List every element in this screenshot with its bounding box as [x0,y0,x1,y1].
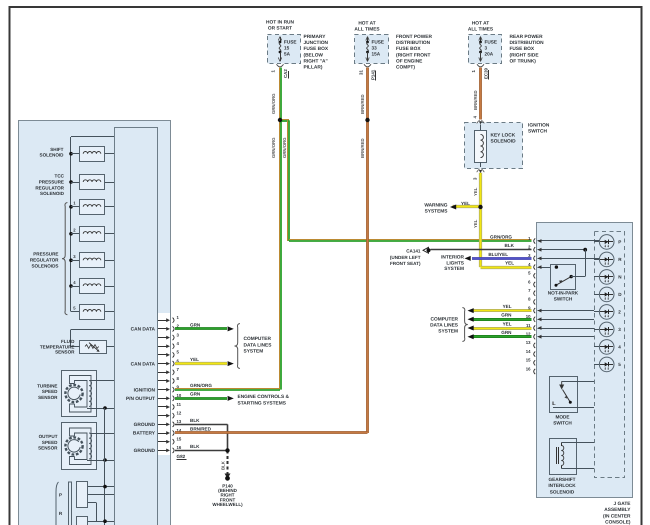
transmission connector pins 1-16 [158,315,182,453]
svg-text:GROUND: GROUND [134,448,156,454]
svg-text:SOLENOID: SOLENOID [550,490,575,495]
svg-text:OF ENGINE: OF ENGINE [396,58,423,64]
svg-text:LIGHTS: LIGHTS [446,260,464,266]
J-gate internal line pin 9 [538,310,595,312]
wire YEL J-gate pin 11 computer data line [472,327,532,330]
fluid temperature sensor [71,329,115,353]
wire BLK vertical pin13 to pin16 [227,424,229,450]
warning systems tap wire YEL [453,205,481,208]
svg-text:YEL: YEL [503,321,512,326]
svg-text:BRN/RED: BRN/RED [360,138,365,158]
J-gate internal line pin 10 [538,319,595,321]
wire BLK trans pin 16 GROUND [175,450,228,452]
svg-text:FRONT POWER: FRONT POWER [396,34,433,40]
svg-text:HOT AT: HOT AT [472,21,489,27]
svg-text:SYSTEMS: SYSTEMS [425,208,449,214]
svg-text:SPEED: SPEED [42,440,58,445]
not-in-park switch [551,250,586,290]
svg-text:BRN/RED: BRN/RED [360,94,365,114]
svg-text:NOT-IN-PARK: NOT-IN-PARK [548,291,579,296]
svg-text:FUSE: FUSE [372,40,385,45]
svg-text:CONSOLE): CONSOLE) [605,519,631,525]
svg-text:EC39: EC39 [484,67,489,79]
svg-text:COMPT): COMPT) [396,65,415,71]
wire GRN trans pin 10 P/N OUTPUT [175,397,227,400]
svg-text:SENSOR: SENSOR [38,446,58,451]
pressure regulator solenoid 3 [69,253,114,268]
svg-text:PRESSURE: PRESSURE [33,252,58,257]
svg-text:SYSTEM: SYSTEM [444,266,464,272]
svg-text:BLK: BLK [190,444,200,449]
svg-text:GRN: GRN [190,392,201,397]
svg-text:SOLENOID: SOLENOID [40,191,65,196]
wire GRN trans pin 2 CAN DATA [175,327,227,330]
svg-text:IGNITION: IGNITION [528,123,550,129]
svg-text:GRN/ORG: GRN/ORG [282,137,287,158]
gear indicator light 4 [594,340,621,355]
svg-text:FUSE: FUSE [485,40,498,45]
svg-text:33: 33 [372,46,378,51]
svg-text:(RIGHT SIDE: (RIGHT SIDE [510,52,540,58]
gear indicator light N [594,270,622,285]
crossing mark at ignition box bottom [477,169,480,172]
svg-text:FUSE BOX: FUSE BOX [304,46,329,52]
svg-text:P: P [618,240,621,245]
connector CA141 symbol [423,247,429,253]
wire YEL J-gate pin 9 computer data line [472,309,532,312]
svg-text:BATTERY: BATTERY [133,431,156,437]
svg-text:OUTPUT: OUTPUT [39,434,58,439]
svg-text:FRONT SEAT): FRONT SEAT) [390,261,421,266]
svg-text:P/N OUTPUT: P/N OUTPUT [126,396,155,402]
svg-text:(BELOW: (BELOW [304,52,324,58]
svg-text:4: 4 [618,345,621,350]
svg-text:REAR POWER: REAR POWER [510,34,544,40]
svg-text:ASSEMBLY: ASSEMBLY [604,507,631,513]
svg-text:DISTRIBUTION: DISTRIBUTION [510,40,545,46]
output speed sensor [62,423,115,470]
svg-text:CAN DATA: CAN DATA [131,361,156,367]
svg-text:SENSOR: SENSOR [55,350,75,355]
gear position switch bracket [56,482,59,525]
mode switch [550,377,595,413]
svg-text:20A: 20A [485,52,494,57]
svg-text:13: 13 [177,419,182,424]
svg-text:DATA LINES: DATA LINES [244,342,273,348]
svg-text:16: 16 [177,445,182,450]
svg-text:FUSE BOX: FUSE BOX [396,46,421,52]
svg-text:15A: 15A [372,52,381,57]
turbine speed sensor [62,371,115,417]
svg-text:P: P [59,493,62,498]
svg-text:13: 13 [526,340,531,345]
gear position switch contact P [77,482,115,522]
J-gate assembly box [537,223,633,498]
pressure regulator solenoid 4 [69,279,114,294]
svg-text:BLK: BLK [505,243,515,248]
svg-text:GRN/ORG: GRN/ORG [490,234,512,239]
brace: computer data lines (left) [235,324,240,369]
svg-text:SENSOR: SENSOR [38,395,58,400]
svg-text:SWITCH: SWITCH [554,296,573,301]
svg-text:REGULATOR: REGULATOR [30,257,59,262]
svg-text:SOLENOIDS: SOLENOIDS [31,263,58,268]
svg-text:COMPUTER: COMPUTER [244,336,272,342]
svg-text:11: 11 [177,402,182,407]
gear indicator light 2 [594,305,621,320]
J-gate internal line pin 3 to R light [538,258,600,260]
arrow to interior lights system [465,256,471,261]
svg-text:BLK: BLK [221,460,226,470]
svg-text:SWITCH: SWITCH [553,420,572,425]
svg-text:15: 15 [526,358,531,363]
gear indicator light P [594,235,621,250]
gear indicator light D [594,287,622,302]
svg-text:DISTRIBUTION: DISTRIBUTION [396,40,431,46]
svg-text:CA2: CA2 [283,69,288,78]
svg-text:INTERIOR: INTERIOR [441,255,464,261]
svg-text:GEARSHIFT: GEARSHIFT [548,477,575,482]
svg-text:WHEELWELL): WHEELWELL) [212,502,243,507]
wire YEL down to J-gate pin 4 [479,207,482,267]
J-gate internal line pin 2 ground [538,249,586,251]
svg-text:SYSTEM: SYSTEM [244,349,264,355]
wire GRN/ORG vertical x289 down to J-gate pin1 row [287,120,289,241]
wire GRN/ORG horizontal into trans pin 9 [175,388,280,390]
dashed BLK wire to ground P140 [227,450,229,474]
svg-text:J GATE: J GATE [614,501,632,507]
gear indicator light 5 [594,357,621,372]
svg-text:12: 12 [177,410,182,415]
gear position switch common bar [68,482,71,525]
svg-text:GRN: GRN [501,330,512,335]
svg-text:31: 31 [359,70,364,75]
svg-text:CAN DATA: CAN DATA [131,327,156,333]
wire BRN/RED from fuse 3 down to ignition switch [479,68,482,120]
arrow to warning systems [450,205,456,210]
svg-text:5: 5 [618,362,621,367]
key lock solenoid [475,125,487,168]
svg-text:BRN/RED: BRN/RED [473,90,478,110]
brace: pressure regulator solenoids group [62,203,67,315]
svg-text:IGNITION: IGNITION [134,387,156,393]
svg-text:RIGHT "A": RIGHT "A" [304,58,328,64]
svg-text:3: 3 [485,46,488,51]
ground splice junction [225,448,229,452]
svg-text:ALL TIMES: ALL TIMES [354,26,380,32]
fuse F33 front power distribution fuse box [355,35,389,64]
wire BLK trans pin 13 GROUND [175,424,228,426]
svg-text:10: 10 [526,314,531,319]
wire YEL trans pin 6 CAN DATA [175,362,227,365]
svg-text:12: 12 [526,332,531,337]
transmission inner connector rectangle [115,128,158,525]
J-gate internal line pin 1 to P light [538,240,600,242]
svg-text:WARNING: WARNING [424,202,447,208]
gear indicator light 3 [594,322,621,337]
J-gate connector pins 1-16 [526,236,535,374]
pressure regulator solenoid 1 [69,200,114,215]
svg-text:PRIMARY: PRIMARY [304,34,327,40]
svg-text:KEY LOCK: KEY LOCK [491,133,516,139]
svg-text:TCC: TCC [55,174,65,179]
J-gate internal line pin 4 to not-in-park switch [538,267,557,269]
svg-text:ALL TIMES: ALL TIMES [468,26,494,32]
svg-text:INTERLOCK: INTERLOCK [548,483,576,488]
gear indicator light R [594,252,622,267]
svg-text:14: 14 [526,349,531,354]
wire BRN/RED horizontal into trans pin 14 BATTERY [175,431,368,434]
wire GRN/ORG horizontal to J-gate pin 1 [289,239,532,241]
svg-text:SWITCH: SWITCH [528,129,547,135]
svg-text:SYSTEM: SYSTEM [438,328,458,334]
svg-text:HOT AT: HOT AT [358,21,375,27]
svg-text:FUSE: FUSE [284,40,297,45]
svg-text:JUNCTION: JUNCTION [304,40,329,46]
svg-text:GRN: GRN [190,322,201,327]
svg-text:REGULATOR: REGULATOR [35,185,64,190]
svg-text:YEL: YEL [190,357,199,362]
svg-text:11: 11 [526,323,531,328]
svg-text:DATA LINES: DATA LINES [430,322,459,328]
svg-text:(IN CENTER: (IN CENTER [603,513,631,519]
svg-text:CA141: CA141 [406,248,421,253]
J-gate internal line pin 12 [538,336,595,338]
wire BLU/YEL to J-gate pin 3 [472,257,532,260]
brace: computer data lines (right) [462,308,467,342]
crossing mark at ignition box top [477,120,480,123]
fuse 15 output connector cup [277,64,284,67]
svg-text:HOT IN RUN: HOT IN RUN [266,20,295,26]
pressure regulator solenoid 5 [71,305,114,320]
wire GRN J-gate pin 10 computer data line [472,318,532,321]
svg-text:GRN: GRN [501,313,512,318]
wire GRN/ORG vertical to pin9 row [279,120,281,389]
svg-text:YEL: YEL [461,201,470,206]
svg-text:BRN/RED: BRN/RED [190,426,212,431]
svg-text:FUSE BOX: FUSE BOX [510,46,535,52]
gear indicator lights dashed box [595,232,625,478]
fuse F3 rear power distribution fuse box [469,35,502,64]
wire YEL horizontal into J-gate pin 4 [481,266,532,269]
svg-text:SOLENOID: SOLENOID [491,139,517,145]
wire BRN/RED vertical to battery row [366,120,369,433]
connector white strip on left box right edge [158,313,170,455]
gearshift interlock solenoid [550,439,595,475]
svg-text:5A: 5A [284,52,291,57]
svg-text:TURBINE: TURBINE [37,383,57,388]
svg-text:PRESSURE: PRESSURE [39,179,64,184]
svg-text:15: 15 [177,437,182,442]
svg-text:15: 15 [284,46,290,51]
svg-text:YEL: YEL [473,187,478,196]
svg-text:GRN/ORG: GRN/ORG [190,383,212,388]
svg-text:G82: G82 [177,454,186,459]
svg-text:YEL: YEL [473,219,478,228]
sensor common wire (vertical) [104,408,106,525]
svg-text:(UNDER LEFT: (UNDER LEFT [390,255,421,260]
solenoid supply bus wire [71,136,114,138]
shift solenoid [69,147,114,162]
svg-text:YEL: YEL [505,261,514,266]
wire GRN J-gate pin 12 computer data line [472,335,532,338]
svg-text:SHIFT: SHIFT [50,147,63,152]
wire GRN/ORG from fuse 15 down [279,68,281,121]
svg-text:STARTING SYSTEMS: STARTING SYSTEMS [238,400,287,406]
svg-text:(RIGHT FRONT: (RIGHT FRONT [396,52,430,58]
svg-text:MODE: MODE [555,415,569,420]
svg-text:3: 3 [618,327,621,332]
svg-text:PILLAR): PILLAR) [304,65,323,71]
svg-text:GROUND: GROUND [134,422,156,428]
splice junction on YEL [478,205,482,209]
pressure regulator solenoid 2 [69,227,114,242]
svg-text:ENGINE CONTROLS &: ENGINE CONTROLS & [238,394,290,400]
svg-text:SOLENOID: SOLENOID [40,153,65,158]
svg-text:GRN/ORG: GRN/ORG [271,137,276,158]
wire YEL from ignition switch down [479,173,482,207]
splice junction on GRN/ORG [278,118,282,122]
wire BLK from CA141 to J-gate pin 2 [431,249,532,251]
wire BRN/RED from fuse 33 down [366,68,369,121]
svg-text:P141: P141 [371,69,376,80]
tcc pressure regulator solenoid [69,175,114,190]
fuse 3 output connector cup [477,64,484,67]
fuse 33 output connector cup [364,64,371,67]
wire GRN/ORG branch to x289 [280,119,289,121]
svg-text:BLK: BLK [190,418,200,423]
svg-text:SPEED: SPEED [42,389,58,394]
svg-text:OF TRUNK): OF TRUNK) [510,58,537,64]
svg-text:GRN/ORG: GRN/ORG [271,93,276,114]
fuse F15 primary junction fuse box [268,35,301,64]
svg-text:16: 16 [526,366,531,371]
svg-text:COMPUTER: COMPUTER [431,317,459,323]
gear position switch contact R [77,517,115,525]
transmission component box (left) [19,121,171,525]
svg-text:BLU/YEL: BLU/YEL [488,252,508,257]
ground point P140 symbol [225,474,231,479]
svg-text:2: 2 [618,310,621,315]
J-gate internal line pin 11 [538,328,595,330]
svg-text:YEL: YEL [503,304,512,309]
splice junction on BRN/RED [365,118,369,122]
ignition switch dashed box [465,123,523,169]
svg-text:OR START: OR START [268,25,292,31]
